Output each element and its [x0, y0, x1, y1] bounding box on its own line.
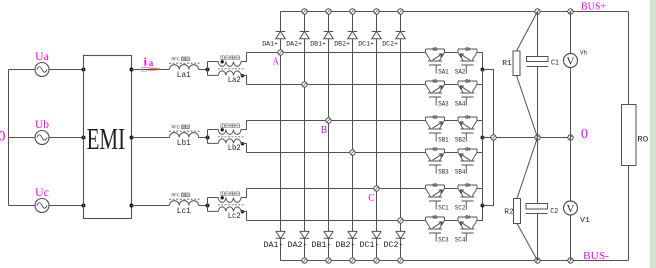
svg-text:Lb2: Lb2	[228, 144, 241, 153]
coupled inductor Lb2 core	[218, 136, 244, 138]
wire La2 top branch to grid level	[241, 53, 247, 62]
svg-text:Ub: Ub	[35, 119, 49, 131]
wire source Ua to EMI	[49, 69, 84, 71]
wire neutral vertical bus (left)	[8, 70, 10, 206]
svg-text:SB2: SB2	[455, 136, 466, 143]
svg-text:DC1+: DC1+	[358, 40, 374, 48]
wire source Ub to EMI	[49, 137, 84, 139]
wire column 6 vertical	[400, 39, 402, 232]
wire phase B bottom-branch horizontal (to SB3)	[247, 152, 426, 154]
wire between SC1 and SC2	[445, 188, 458, 190]
wire SC2 output to midpoint	[477, 189, 483, 206]
wire phase A bottom-branch horizontal (to SA3)	[247, 84, 426, 86]
switch SA3	[426, 79, 445, 105]
wire between SA3 and SA4	[445, 84, 458, 86]
junction cell C output	[481, 204, 485, 208]
terminal ring top bus col2	[302, 9, 307, 14]
label air-core inductor (chinese) c	[221, 192, 240, 196]
resistor R1	[513, 51, 520, 76]
diode DB1+	[324, 12, 334, 39]
wire midpoint to capacitor midbus (O)	[483, 137, 571, 139]
svg-text:A: A	[273, 55, 279, 67]
inductor Lc1 (PFC)	[170, 201, 199, 206]
junction B2	[350, 150, 355, 155]
coupled inductor Lc2 bottom winding	[218, 207, 241, 211]
svg-text:La2: La2	[228, 76, 241, 85]
terminal ring top bus col3	[326, 9, 331, 14]
switch SC4	[458, 215, 477, 241]
svg-text:Uc: Uc	[35, 187, 49, 199]
svg-text:DB2+: DB2+	[334, 40, 350, 48]
switch SC2	[458, 183, 477, 209]
terminal ring bus+ C1	[535, 9, 540, 14]
svg-text:DA1-: DA1-	[264, 241, 284, 250]
switch SA1	[426, 47, 445, 73]
svg-text:SB1: SB1	[438, 136, 449, 143]
switch SB3	[426, 147, 445, 173]
terminal ring top bus col5	[374, 9, 379, 14]
terminal ring bus+ Vh	[568, 9, 573, 14]
svg-text:SA3: SA3	[438, 100, 449, 107]
wire from neutral to source Ua	[9, 69, 36, 71]
svg-text:C: C	[368, 192, 374, 204]
svg-text:B: B	[321, 124, 328, 136]
coupled inductor Lc2 core	[218, 204, 244, 206]
coupled inductor Lb2 top winding	[218, 130, 241, 135]
terminal ring top bus col6	[398, 9, 403, 14]
resistor R2	[514, 199, 521, 224]
switch SB1	[426, 115, 445, 141]
svg-text:SA2: SA2	[455, 68, 466, 75]
wire fork to coupled inductor Lc2	[208, 198, 219, 212]
svg-text:La1: La1	[177, 71, 191, 80]
inductor Lb1 (PFC)	[170, 133, 199, 138]
svg-text:BUS-: BUS-	[583, 251, 610, 262]
diode DA2-	[300, 231, 310, 260]
svg-text:0: 0	[581, 127, 588, 142]
wire phase B top-branch horizontal (to SB1)	[247, 120, 426, 122]
wire R2 top diagonal	[517, 138, 538, 199]
diode DA2+	[300, 12, 310, 39]
svg-text:Lc1: Lc1	[177, 207, 191, 216]
junction C2	[398, 218, 403, 223]
svg-text:DA2-: DA2-	[288, 241, 308, 250]
wire column 4 vertical	[352, 39, 354, 232]
svg-text:SB3: SB3	[438, 168, 449, 175]
node A	[278, 50, 283, 55]
switch SB2	[458, 115, 477, 141]
wire EMI to Lc1	[132, 205, 170, 207]
wire R1 top diagonal	[517, 12, 538, 52]
wire phase C bottom-branch horizontal (to SC3)	[247, 220, 426, 222]
svg-text:SB4: SB4	[455, 168, 466, 175]
terminal ring top bus col4	[350, 9, 355, 14]
wire Lc2 top branch to grid level	[241, 189, 247, 198]
wire midpoint vertical link	[482, 70, 484, 206]
junction Lc1/Lc2 node	[206, 204, 210, 208]
switch SA2	[458, 47, 477, 73]
wire column 1 vertical	[280, 39, 282, 232]
diode DA1+	[276, 12, 286, 39]
load resistor RO	[628, 12, 630, 105]
wire column 2 vertical	[304, 39, 306, 232]
polarity dot Lc2 top	[221, 196, 224, 199]
wire BUS- bottom bus	[281, 260, 629, 262]
junction Lb1/Lb2 node	[206, 136, 210, 140]
wire R1 bottom diagonal	[517, 76, 538, 138]
svg-text:V1: V1	[580, 217, 591, 225]
coupled inductor La2 bottom winding	[218, 71, 241, 75]
coupled inductor La2 core	[218, 68, 244, 70]
wire Lc1 to node	[199, 205, 208, 207]
diode DA1-	[276, 231, 286, 260]
junction EMI output c	[130, 204, 134, 208]
wire column 5 vertical	[376, 39, 378, 232]
label air-core inductor (chinese) b	[221, 124, 240, 128]
wire phase C top-branch horizontal (to SC1)	[247, 188, 426, 190]
current arrow ia (red)	[142, 67, 161, 71]
svg-text:C1: C1	[551, 59, 559, 67]
junction EMI output b	[130, 136, 134, 140]
switch SA4	[458, 79, 477, 105]
terminal ring O-left	[491, 135, 496, 140]
wire Lc2 bottom branch to grid level	[241, 211, 247, 220]
svg-text:DB1-: DB1-	[312, 241, 332, 250]
wire Lb1 to node	[199, 137, 208, 139]
svg-text:SA1: SA1	[438, 68, 449, 75]
polarity dot La2 bottom	[241, 74, 244, 77]
switch SC3	[426, 215, 445, 241]
svg-text:C2: C2	[550, 208, 558, 216]
wire Lb2 bottom branch to grid level	[241, 143, 247, 152]
wire from neutral to source Uc	[9, 205, 36, 207]
svg-text:BUS+: BUS+	[581, 2, 606, 13]
junction A2	[302, 82, 307, 87]
polarity dot Lb2 bottom	[241, 142, 244, 145]
junction cell B output	[481, 136, 485, 140]
terminal ring O-mid	[535, 135, 540, 140]
svg-text:R1: R1	[502, 60, 512, 68]
coupled inductor La2 top winding	[218, 62, 241, 67]
svg-text:SA4: SA4	[455, 100, 466, 107]
svg-text:Lb1: Lb1	[177, 139, 191, 148]
wire EMI to Lb1	[132, 137, 170, 139]
green margin strip (right)	[650, 0, 656, 268]
wire column 3 vertical	[328, 39, 330, 232]
wire SA4 output to midpoint	[477, 70, 483, 85]
wire BUS+ top bus	[281, 11, 629, 13]
coupled inductor Lc2 top winding	[218, 198, 241, 203]
wire La1 to node	[199, 69, 208, 71]
AC source Ub	[35, 131, 49, 145]
svg-text:DB2-: DB2-	[336, 241, 356, 250]
wire SB4 output to midpoint	[477, 138, 483, 153]
svg-text:DA2+: DA2+	[286, 40, 302, 48]
wire SB2 output to midpoint	[477, 121, 483, 138]
svg-text:SC3: SC3	[438, 236, 449, 243]
inductor La1 (PFC)	[170, 65, 199, 70]
svg-text:PFC: PFC	[172, 193, 180, 198]
junction cell A output	[481, 68, 485, 72]
svg-text:DC1-: DC1-	[360, 241, 380, 250]
node B	[326, 118, 331, 123]
junction EMI input c	[82, 204, 86, 208]
wire SC4 output to midpoint	[477, 206, 483, 221]
terminal ring bottom bus col4	[350, 258, 355, 263]
label air-core inductor (chinese) a	[221, 56, 240, 60]
wire fork to coupled inductor La2	[208, 62, 219, 76]
terminal ring bottom bus col6	[398, 258, 403, 263]
svg-text:a: a	[149, 58, 154, 68]
svg-text:RO: RO	[637, 135, 648, 144]
junction EMI input b	[82, 136, 86, 140]
EMI filter box U-EMI	[84, 56, 132, 219]
wire between SA1 and SA2	[445, 52, 458, 54]
diode DB2-	[348, 231, 358, 260]
terminal ring bottom bus col5	[374, 258, 379, 263]
AC source Ua	[35, 63, 49, 77]
wire R2 bottom diagonal	[517, 224, 538, 261]
switch SB4	[458, 147, 477, 173]
node C	[374, 186, 379, 191]
svg-text:R2: R2	[504, 209, 514, 217]
wire midpoint stub bottom	[483, 138, 494, 206]
polarity dot Lb2 top	[221, 128, 224, 131]
diode DB2+	[348, 12, 358, 39]
polarity dot La2 top	[221, 60, 224, 63]
svg-text:DA1+: DA1+	[262, 40, 278, 48]
wire between SC3 and SC4	[445, 220, 458, 222]
terminal ring bus- V1	[568, 258, 573, 263]
wire between SB1 and SB2	[445, 120, 458, 122]
voltmeter V1	[570, 138, 572, 202]
wire phase A top-branch horizontal (to SA1)	[247, 52, 426, 54]
svg-text:PFC: PFC	[172, 57, 180, 62]
wire from neutral to source Ub	[9, 137, 36, 139]
terminal ring bottom bus col2	[302, 258, 307, 263]
diode DC2-	[396, 231, 406, 260]
capacitor C2	[537, 138, 539, 204]
svg-text:SC4: SC4	[455, 236, 466, 243]
capacitor C1	[537, 12, 539, 57]
svg-text:DB1+: DB1+	[310, 40, 326, 48]
diode DC2+	[396, 12, 406, 39]
junction EMI input a	[82, 68, 86, 72]
svg-text:0: 0	[0, 129, 6, 145]
svg-text:Lc2: Lc2	[228, 212, 241, 221]
svg-text:DC2+: DC2+	[382, 40, 398, 48]
terminal ring bus- C2	[535, 258, 540, 263]
svg-text:V: V	[567, 203, 575, 215]
junction EMI output a	[130, 68, 134, 72]
wire SA2 output to midpoint	[477, 53, 483, 70]
junction La1/La2 node	[206, 68, 210, 72]
wire Lb2 top branch to grid level	[241, 121, 247, 130]
diode DC1-	[372, 231, 382, 260]
svg-text:EMI: EMI	[87, 122, 126, 156]
wire between SB3 and SB4	[445, 152, 458, 154]
AC source Uc	[35, 199, 49, 213]
terminal ring bottom bus col3	[326, 258, 331, 263]
wire EMI to La1	[132, 69, 170, 71]
wire source Uc to EMI	[49, 205, 84, 207]
switch SC1	[426, 183, 445, 209]
coupled inductor Lb2 bottom winding	[218, 139, 241, 143]
wire midpoint stub top	[483, 70, 494, 138]
svg-text:SC1: SC1	[438, 204, 449, 211]
svg-text:Vh: Vh	[580, 49, 587, 56]
wire fork to coupled inductor Lb2	[208, 130, 219, 144]
svg-text:Ua: Ua	[35, 51, 49, 63]
diode DC1+	[372, 12, 382, 39]
diode DB1-	[324, 231, 334, 260]
svg-text:SC2: SC2	[455, 204, 466, 211]
svg-text:V: V	[567, 56, 575, 68]
svg-text:DC2-: DC2-	[384, 241, 404, 250]
terminal ring O-right	[568, 135, 573, 140]
svg-text:PFC: PFC	[172, 125, 180, 130]
wire La2 bottom branch to grid level	[241, 75, 247, 84]
voltmeter Vh	[570, 12, 572, 54]
polarity dot Lc2 bottom	[241, 210, 244, 213]
